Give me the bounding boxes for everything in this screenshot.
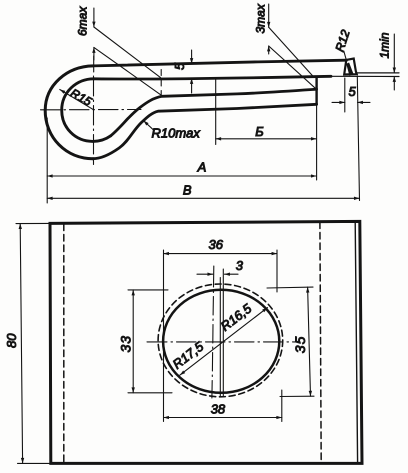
dimension 5 (upper leg thickness) bbox=[191, 50, 193, 64]
top edge extension for 80 bbox=[16, 222, 50, 224]
svg-text:A: A bbox=[197, 159, 207, 174]
loop inner boundary arc bbox=[62, 79, 111, 142]
svg-text:B: B bbox=[183, 182, 192, 197]
dimension 35 line bbox=[308, 287, 311, 396]
svg-text:38: 38 bbox=[211, 402, 226, 417]
centerline vertical of loop + 6max dimension line bbox=[93, 8, 95, 27]
hidden dashed line near right edge bbox=[320, 222, 321, 463]
dimension B line bbox=[47, 197, 359, 199]
R10max leader bbox=[144, 121, 154, 130]
L2 extension to right (1min lower line) bbox=[331, 75, 399, 77]
hidden dashed line near left edge bbox=[63, 224, 65, 463]
svg-text:5: 5 bbox=[172, 62, 187, 70]
svg-text:33: 33 bbox=[118, 335, 134, 353]
lower leg end face (vertical edge) bbox=[315, 77, 317, 105]
lower leg top edge L3 with S-curve from loop bbox=[111, 89, 317, 136]
tip bottom line extension (1min upper line) bbox=[357, 72, 400, 74]
lower leg bottom edge L4 with S-curve from loop (R10max) bbox=[93, 104, 317, 158]
dimension A left extension bbox=[46, 118, 48, 203]
loop outer outline + upper leg top edge L1 bbox=[45, 66, 93, 159]
dimension 35 extensions bbox=[267, 286, 313, 289]
dimension Б extension lines bbox=[215, 79, 217, 145]
dimension 33 extensions bbox=[128, 289, 168, 291]
bent tip quadrilateral R12 bbox=[344, 59, 357, 75]
dimension A line bbox=[47, 175, 316, 177]
radius diameter line R17,5 / R16,5 with arrows both ends bbox=[180, 308, 268, 376]
bent tip thick ink triangle bbox=[347, 63, 353, 75]
svg-text:Б: Б bbox=[255, 124, 264, 139]
plate outline bbox=[50, 221, 362, 463]
dimension 38 right extension bbox=[281, 390, 283, 422]
svg-text:3: 3 bbox=[236, 258, 244, 273]
plate right inner edge line bbox=[355, 222, 357, 463]
dimension 33 line bbox=[132, 290, 134, 393]
R15 radius line bbox=[60, 90, 94, 110]
dimension 36 extensions bbox=[163, 250, 165, 422]
hidden dashed vertical at x=161 bbox=[160, 70, 162, 97]
vertical dash-dot centerline of hole bbox=[212, 266, 214, 398]
1min dimension bbox=[393, 34, 395, 73]
3max dimension arrows bbox=[268, 4, 270, 27]
R12 leader bbox=[344, 51, 347, 61]
svg-text:6max: 6max bbox=[76, 6, 90, 36]
6max oblique extension lines bbox=[94, 27, 161, 78]
bottom edge extension for 80 bbox=[18, 462, 51, 464]
dimension 80 line bbox=[20, 224, 22, 464]
svg-text:5: 5 bbox=[349, 84, 357, 99]
dimension 36 line bbox=[164, 253, 278, 255]
dimension 38 line bbox=[164, 417, 282, 419]
dimension Б line with arrows bbox=[216, 138, 317, 140]
svg-text:R10max: R10max bbox=[152, 126, 201, 141]
tip 5 dimension arrows bbox=[332, 101, 345, 103]
centerline horizontal of loop bbox=[41, 109, 142, 111]
svg-text:R17,5: R17,5 bbox=[170, 338, 207, 371]
wire: upper leg bottom edge L2 bbox=[94, 76, 331, 79]
hole solid circle bbox=[163, 290, 279, 393]
horizontal dash-dot centerline of hole bbox=[147, 341, 299, 343]
wire: upper leg top edge bbox=[93, 60, 346, 66]
dimension 3 (offset) bbox=[197, 273, 213, 275]
svg-text:1min: 1min bbox=[378, 32, 392, 58]
dashed circle (clip loop position) bbox=[158, 284, 283, 397]
svg-text:35: 35 bbox=[292, 336, 308, 354]
offset centre double lines bbox=[222, 269, 224, 397]
tip 5 dimension extension lines bbox=[344, 78, 346, 112]
svg-text:R12: R12 bbox=[333, 28, 353, 54]
svg-text:80: 80 bbox=[4, 333, 19, 348]
svg-text:36: 36 bbox=[209, 237, 224, 252]
svg-text:3max: 3max bbox=[254, 3, 268, 33]
3max oblique extension lines bbox=[269, 27, 313, 76]
